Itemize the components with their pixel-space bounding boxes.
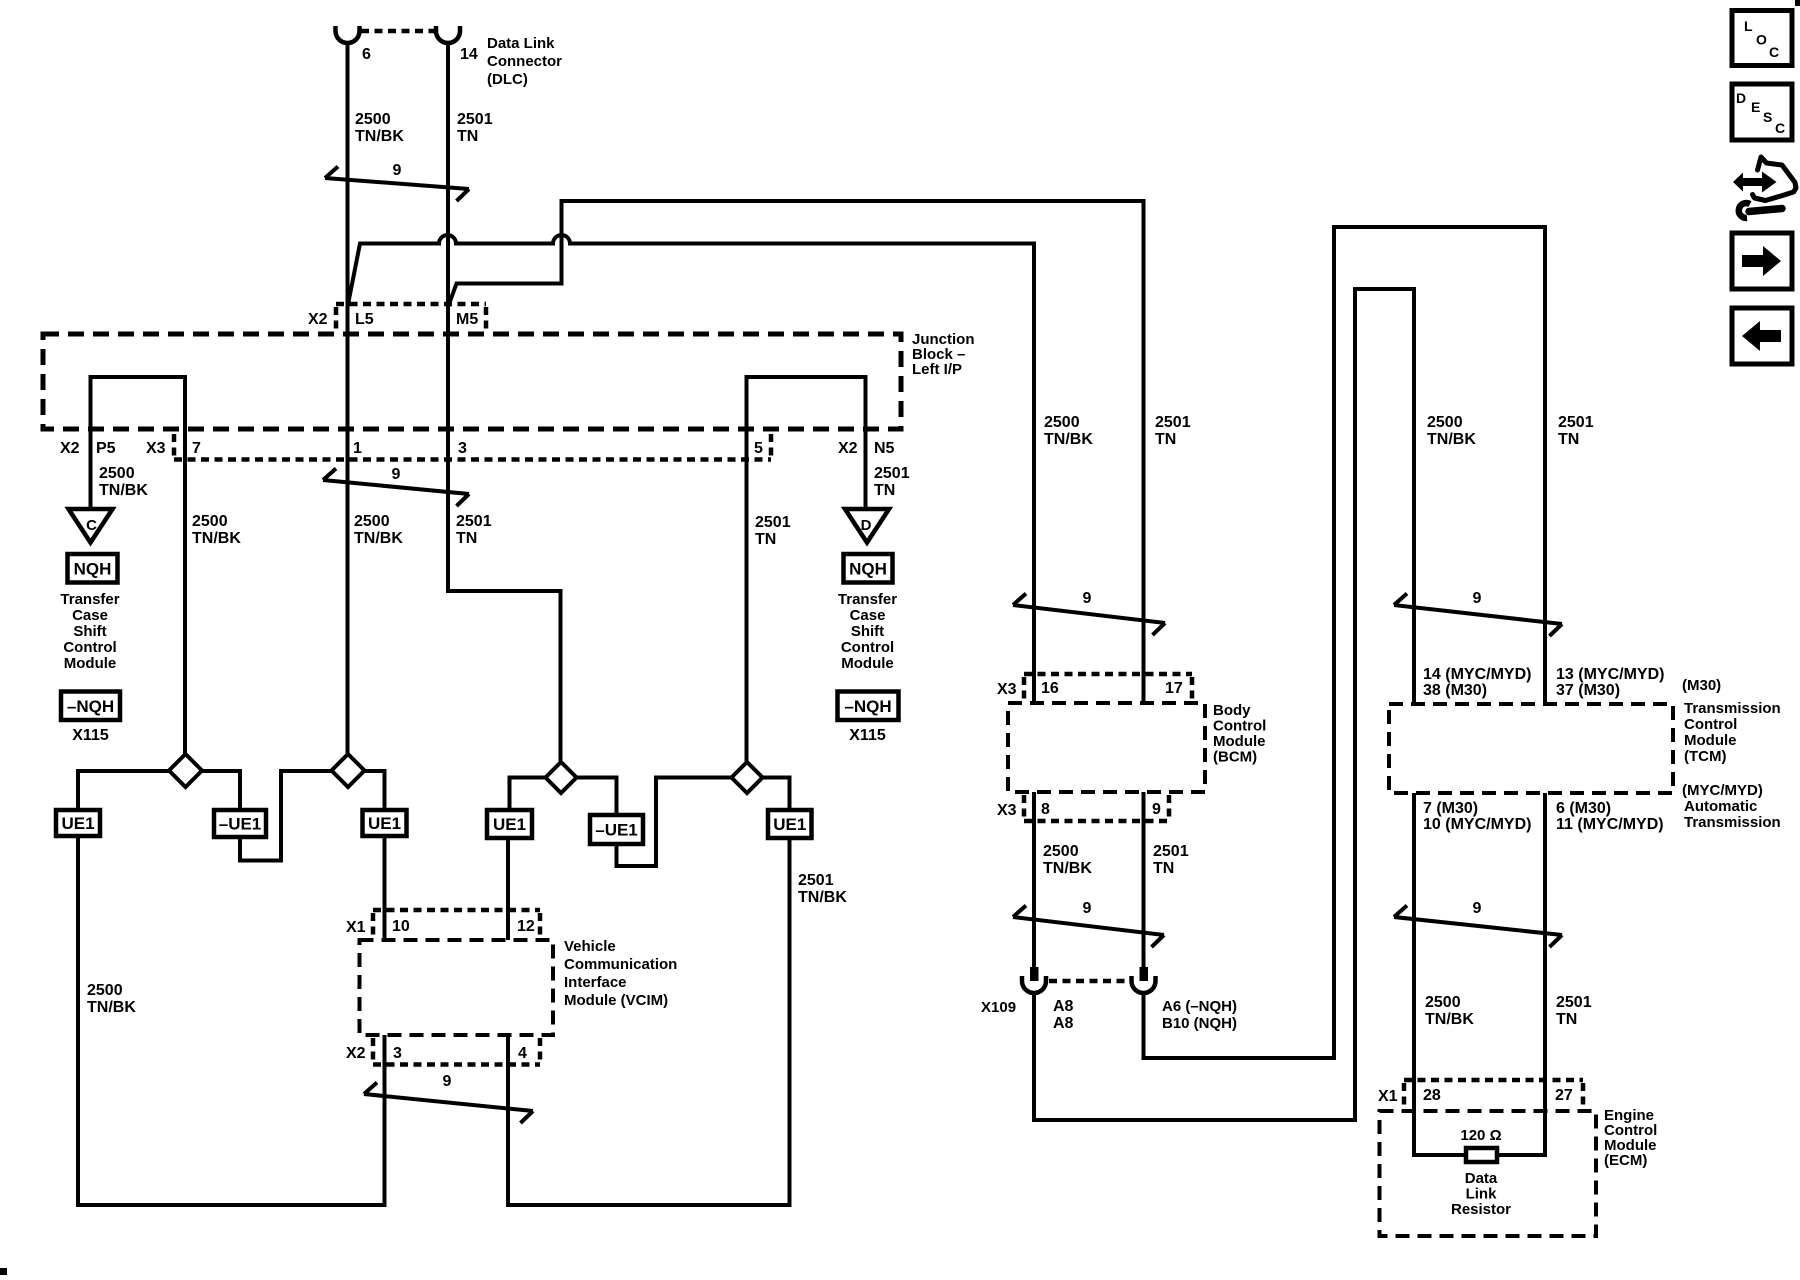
code box -UE1 (right)	[590, 815, 643, 844]
code box UE1 (far left)	[56, 810, 100, 836]
svg-text:Case: Case	[850, 607, 886, 624]
svg-text:2501: 2501	[457, 111, 493, 128]
svg-text:X3: X3	[997, 681, 1017, 698]
svg-text:(DLC): (DLC)	[487, 71, 528, 88]
connector X109 male pin (right)	[1140, 967, 1149, 981]
svg-text:TN: TN	[1558, 431, 1579, 448]
svg-text:2501: 2501	[755, 514, 791, 531]
wire -UE1 loop to splice 2 left arm	[240, 771, 385, 861]
off-page arrow C	[69, 509, 113, 543]
svg-text:38 (M30): 38 (M30)	[1423, 682, 1487, 699]
svg-text:NQH: NQH	[74, 559, 112, 578]
svg-text:C: C	[1775, 120, 1785, 136]
splice S4	[732, 762, 763, 793]
svg-text:TN: TN	[1155, 431, 1176, 448]
pin 7 (M30) 10 (MYC/MYD)	[1423, 800, 1531, 833]
code box -UE1 (left)	[214, 810, 266, 837]
junction block top connector row X2	[336, 304, 486, 330]
data link resistor name	[1451, 1170, 1511, 1218]
svg-text:Case: Case	[72, 607, 108, 624]
svg-text:(TCM): (TCM)	[1684, 748, 1726, 765]
svg-text:X2: X2	[346, 1045, 366, 1062]
svg-text:E: E	[1751, 99, 1760, 115]
svg-text:X2: X2	[60, 440, 80, 457]
svg-text:Transfer: Transfer	[60, 591, 119, 608]
svg-text:Left I/P: Left I/P	[912, 361, 962, 378]
transfer case shift control module (left) name	[60, 591, 119, 672]
icon button LOC	[1732, 11, 1792, 66]
DLC dashed connector link	[361, 29, 435, 34]
svg-text:TN: TN	[874, 482, 895, 499]
svg-text:9: 9	[1473, 900, 1482, 917]
wire -UE1 loop to splice 4 left arm	[617, 778, 790, 867]
svg-text:Body: Body	[1213, 702, 1251, 719]
svg-text:Communication: Communication	[564, 956, 677, 973]
svg-text:2500: 2500	[1044, 414, 1080, 431]
icon electrical information (arrow and wrench scribble)	[1733, 157, 1796, 218]
svg-text:–NQH: –NQH	[844, 697, 891, 716]
svg-text:6 (M30): 6 (M30)	[1556, 800, 1611, 817]
svg-text:12: 12	[517, 918, 535, 935]
svg-text:TN: TN	[755, 531, 776, 548]
svg-text:120 Ω: 120 Ω	[1460, 1127, 1501, 1144]
svg-text:14: 14	[460, 46, 478, 63]
svg-text:Control: Control	[1684, 716, 1737, 733]
label 2500 TN/BK (left drop)	[87, 982, 136, 1016]
svg-text:O: O	[1756, 32, 1767, 48]
wire 2500 TN/BK return: X109 A8 down, right, up and over to TCM pin 14/38	[1034, 289, 1414, 1120]
svg-text:Transfer: Transfer	[838, 591, 897, 608]
label 2501 TN (BCM top)	[1155, 414, 1191, 448]
label 2500 TN/BK (TCM top)	[1427, 414, 1476, 448]
svg-text:2501: 2501	[1558, 414, 1594, 431]
svg-text:9: 9	[392, 466, 401, 483]
wire TCM pin 6/11 down to ECM pin 27	[1497, 793, 1545, 1155]
junction block internal bus right (5 to N5)	[747, 377, 866, 762]
svg-text:2501: 2501	[1556, 994, 1592, 1011]
svg-text:5: 5	[754, 440, 763, 457]
wire 2501 TN/BK right drop and bottom run to VCIM pin 4	[508, 838, 790, 1205]
svg-text:2500: 2500	[192, 513, 228, 530]
label 2501 TN (BCM bottom)	[1153, 843, 1189, 877]
svg-text:Module: Module	[64, 655, 117, 672]
svg-text:3: 3	[393, 1045, 402, 1062]
svg-text:Module: Module	[1213, 733, 1266, 750]
svg-text:A6 (–NQH): A6 (–NQH)	[1162, 998, 1237, 1015]
svg-text:TN/BK: TN/BK	[1043, 860, 1092, 877]
pins A6 B10	[1162, 998, 1237, 1032]
harness crossing 9 (below junction block)	[323, 469, 469, 507]
svg-text:Transmission: Transmission	[1684, 814, 1781, 831]
pin 13 (MYC/MYD) 37 (M30)	[1556, 666, 1664, 699]
label 2500 TN/BK (BCM bottom)	[1043, 843, 1092, 877]
page corner mark bottom left	[0, 1268, 7, 1275]
svg-text:X2: X2	[308, 311, 328, 328]
harness crossing 9 (above TCM)	[1394, 594, 1562, 637]
label 2500 TN/BK (pin 7)	[192, 513, 241, 547]
svg-text:X2: X2	[838, 440, 858, 457]
BCM connector row X3 (top)	[1024, 674, 1192, 700]
splice S1	[169, 754, 202, 787]
svg-text:M5: M5	[456, 311, 478, 328]
body control module (BCM) dashed outline	[1008, 703, 1205, 792]
svg-text:17: 17	[1165, 680, 1183, 697]
wire branch 2500 TN/BK : junction L5 tap to BCM pin 16, hops over two wires	[348, 235, 1035, 703]
svg-text:A8: A8	[1053, 1015, 1074, 1032]
svg-text:37 (M30): 37 (M30)	[1556, 682, 1620, 699]
svg-text:TN/BK: TN/BK	[1425, 1011, 1474, 1028]
harness crossing 9 (above BCM)	[1013, 594, 1165, 636]
svg-text:2500: 2500	[99, 465, 135, 482]
svg-text:Module (VCIM): Module (VCIM)	[564, 992, 668, 1009]
svg-text:2501: 2501	[456, 513, 492, 530]
body control module (BCM) name	[1213, 702, 1266, 766]
svg-text:TN/BK: TN/BK	[798, 889, 847, 906]
svg-text:Interface: Interface	[564, 974, 627, 991]
svg-text:P5: P5	[96, 440, 116, 457]
svg-text:Shift: Shift	[851, 623, 884, 640]
svg-text:X3: X3	[997, 802, 1017, 819]
svg-text:–NQH: –NQH	[67, 697, 114, 716]
svg-text:Transmission: Transmission	[1684, 700, 1781, 717]
wire VCIM pin 10 lead	[383, 836, 387, 940]
svg-text:TN/BK: TN/BK	[354, 530, 403, 547]
code box -NQH (left)	[61, 692, 120, 721]
svg-text:UE1: UE1	[61, 814, 94, 833]
engine control module (ECM) dashed outline	[1380, 1111, 1597, 1236]
VCIM module dashed outline	[360, 940, 554, 1035]
svg-text:2501: 2501	[1153, 843, 1189, 860]
code box -NQH (right)	[838, 692, 899, 721]
label 2501 TN/BK (right drop)	[798, 872, 847, 906]
code box UE1 (left-center)	[363, 810, 407, 836]
svg-text:–UE1: –UE1	[595, 821, 638, 840]
svg-text:Link: Link	[1466, 1186, 1497, 1203]
svg-text:2501: 2501	[874, 465, 910, 482]
svg-text:(MYC/MYD): (MYC/MYD)	[1682, 782, 1763, 799]
svg-text:10: 10	[392, 918, 410, 935]
label 2500 TN/BK (pin 1)	[354, 513, 403, 547]
svg-text:2500: 2500	[1427, 414, 1463, 431]
harness crossing 9 (below VCIM)	[364, 1083, 533, 1124]
svg-text:S: S	[1763, 109, 1772, 125]
svg-text:NQH: NQH	[849, 559, 887, 578]
svg-text:1: 1	[353, 440, 362, 457]
harness crossing 9 (below DLC)	[325, 167, 469, 202]
resistor 120 ohm (data link resistor)	[1466, 1148, 1497, 1162]
svg-text:X1: X1	[346, 919, 366, 936]
icon button forward arrow	[1732, 233, 1792, 289]
label 2501 TN (pin 3)	[456, 513, 492, 547]
svg-text:Control: Control	[63, 639, 116, 656]
label 2501 TN (pin 5)	[755, 514, 791, 548]
connector X109 cavity A8	[1022, 976, 1046, 993]
wire splice arms splice 3	[510, 778, 617, 816]
pins A8 A8	[1053, 998, 1074, 1032]
svg-text:C: C	[86, 517, 97, 534]
svg-text:7 (M30): 7 (M30)	[1423, 800, 1478, 817]
svg-text:X3: X3	[146, 440, 166, 457]
svg-text:(ECM): (ECM)	[1604, 1152, 1647, 1169]
svg-text:16: 16	[1041, 680, 1059, 697]
wire BCM pin 8 down to X109 A8	[1032, 792, 1036, 967]
svg-text:TN/BK: TN/BK	[1427, 431, 1476, 448]
VCIM connector row X1	[373, 910, 540, 936]
label 2501 TN (TCM bottom)	[1556, 994, 1592, 1028]
label circuit 2501 TN (DLC)	[457, 111, 493, 145]
junction block internal bus left (P5 to 7)	[91, 377, 186, 754]
svg-text:Module: Module	[1684, 732, 1737, 749]
X109 dashed connector link	[1049, 979, 1130, 984]
svg-text:2501: 2501	[798, 872, 834, 889]
svg-text:TN/BK: TN/BK	[192, 530, 241, 547]
wire branch 2501 TN : junction M5 tap to BCM pin 17	[448, 201, 1144, 703]
svg-text:X1: X1	[1378, 1088, 1398, 1105]
Data Link Connector (DLC) name	[487, 35, 562, 88]
svg-text:Control: Control	[841, 639, 894, 656]
transfer case shift control module (right) name	[838, 591, 897, 672]
svg-text:C: C	[1769, 44, 1779, 60]
svg-text:13 (MYC/MYD): 13 (MYC/MYD)	[1556, 666, 1664, 683]
wire 2501 TN return: X109 A6 down, right, up and over to TCM pin 13/37	[1144, 227, 1546, 1058]
wire 2501 TN : DLC pin 14 down through junction block pins M5/3, jog right, to splice	[448, 43, 561, 762]
wire splice arm left of splice 1	[78, 771, 240, 810]
svg-text:(M30): (M30)	[1682, 677, 1721, 694]
code box UE1 (far right)	[768, 810, 812, 838]
svg-text:9: 9	[1152, 801, 1161, 818]
pin 14 (MYC/MYD) 38 (M30)	[1423, 666, 1531, 699]
VCIM connector row X2	[373, 1038, 540, 1065]
connector DLC cavity pin 14	[436, 26, 460, 43]
junction block - left I/P dashed outline	[43, 334, 901, 429]
label circuit 2500 TN/BK (DLC)	[355, 111, 404, 145]
harness crossing 9 (above X109)	[1013, 906, 1164, 948]
automatic transmission label	[1684, 798, 1781, 831]
ECM connector row X1	[1404, 1080, 1583, 1106]
code box UE1 (center)	[487, 810, 532, 838]
wire VCIM pin 12 lead	[506, 838, 510, 940]
svg-text:TN/BK: TN/BK	[355, 128, 404, 145]
connector X109 male pin (left)	[1030, 967, 1039, 981]
svg-text:Data: Data	[1465, 1170, 1498, 1187]
svg-text:2500: 2500	[1043, 843, 1079, 860]
wire BCM pin 9 down to X109 A6	[1142, 792, 1146, 967]
svg-text:9: 9	[1473, 590, 1482, 607]
svg-text:D: D	[861, 517, 872, 534]
svg-text:X115: X115	[72, 727, 109, 744]
svg-text:B10 (NQH): B10 (NQH)	[1162, 1015, 1237, 1032]
wire 2500 TN/BK left drop and bottom run to VCIM pin 3	[78, 836, 385, 1205]
label 2501 TN (pin N5)	[874, 465, 910, 499]
page corner mark top right	[1795, 0, 1800, 6]
svg-text:27: 27	[1555, 1087, 1573, 1104]
svg-text:X109: X109	[981, 999, 1016, 1016]
code box NQH (left)	[68, 554, 118, 583]
label 2500 TN/BK (BCM top)	[1044, 414, 1093, 448]
splice S3	[546, 762, 577, 793]
BCM connector row X3 (bottom)	[1024, 795, 1169, 821]
off-page arrow D	[845, 509, 889, 543]
vehicle communication interface module (VCIM) name	[564, 938, 677, 1009]
splice S2	[332, 754, 365, 787]
connector DLC cavity pin 6	[336, 26, 360, 43]
engine control module (ECM) name	[1604, 1107, 1657, 1169]
svg-text:Resistor: Resistor	[1451, 1201, 1511, 1218]
transmission control module (TCM) name	[1684, 700, 1781, 765]
svg-text:(BCM): (BCM)	[1213, 749, 1257, 766]
svg-text:8: 8	[1041, 801, 1050, 818]
svg-text:–UE1: –UE1	[219, 815, 262, 834]
label 2500 TN/BK (pin P5)	[99, 465, 148, 499]
svg-text:14 (MYC/MYD): 14 (MYC/MYD)	[1423, 666, 1531, 683]
svg-text:X115: X115	[849, 727, 886, 744]
icon button back arrow	[1732, 308, 1792, 364]
svg-text:4: 4	[518, 1045, 527, 1062]
svg-text:TN/BK: TN/BK	[1044, 431, 1093, 448]
svg-text:9: 9	[1083, 590, 1092, 607]
svg-text:L: L	[1744, 18, 1753, 34]
svg-text:9: 9	[443, 1073, 452, 1090]
icon button DESC	[1732, 84, 1792, 140]
svg-text:L5: L5	[355, 311, 374, 328]
svg-text:A8: A8	[1053, 998, 1074, 1015]
junction block bottom connector row X3	[174, 434, 771, 460]
svg-text:9: 9	[393, 162, 402, 179]
svg-text:TN: TN	[457, 128, 478, 145]
svg-text:10 (MYC/MYD): 10 (MYC/MYD)	[1423, 816, 1531, 833]
wire 2500 TN/BK : DLC pin 6 down through junction block pins L5/1 to splice	[346, 43, 350, 755]
svg-text:TN: TN	[456, 530, 477, 547]
pin 6 (M30) 11 (MYC/MYD)	[1556, 800, 1664, 833]
transmission control module (TCM) dashed outline	[1389, 704, 1673, 793]
svg-text:Data Link: Data Link	[487, 35, 555, 52]
svg-text:2501: 2501	[1155, 414, 1191, 431]
svg-text:Module: Module	[841, 655, 894, 672]
svg-text:2500: 2500	[1425, 994, 1461, 1011]
svg-text:6: 6	[362, 46, 371, 63]
junction block name	[912, 331, 975, 378]
code box NQH (right)	[844, 554, 893, 583]
svg-text:UE1: UE1	[493, 815, 526, 834]
svg-text:N5: N5	[874, 440, 895, 457]
svg-text:2500: 2500	[87, 982, 123, 999]
svg-text:3: 3	[458, 440, 467, 457]
svg-text:TN/BK: TN/BK	[99, 482, 148, 499]
connector X109 cavity A6	[1132, 976, 1156, 993]
svg-text:D: D	[1736, 90, 1746, 106]
label 2501 TN (TCM top)	[1558, 414, 1594, 448]
svg-text:2500: 2500	[355, 111, 391, 128]
svg-text:28: 28	[1423, 1087, 1441, 1104]
svg-text:Shift: Shift	[73, 623, 106, 640]
svg-text:Automatic: Automatic	[1684, 798, 1757, 815]
harness crossing 9 (below TCM)	[1394, 906, 1562, 948]
label 2500 TN/BK (TCM bottom)	[1425, 994, 1474, 1028]
wire TCM pin 7/10 down to ECM pin 28	[1414, 793, 1466, 1155]
svg-text:Control: Control	[1213, 718, 1266, 735]
svg-text:Connector: Connector	[487, 53, 562, 70]
svg-text:7: 7	[192, 440, 201, 457]
svg-text:UE1: UE1	[368, 814, 401, 833]
svg-text:TN/BK: TN/BK	[87, 999, 136, 1016]
svg-text:TN: TN	[1153, 860, 1174, 877]
svg-text:2500: 2500	[354, 513, 390, 530]
svg-text:UE1: UE1	[773, 815, 806, 834]
svg-text:9: 9	[1083, 900, 1092, 917]
svg-text:11 (MYC/MYD): 11 (MYC/MYD)	[1556, 816, 1664, 833]
svg-text:TN: TN	[1556, 1011, 1577, 1028]
svg-text:Vehicle: Vehicle	[564, 938, 616, 955]
